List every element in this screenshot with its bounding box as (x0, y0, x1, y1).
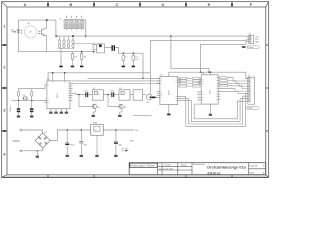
encoder wheel (24, 26, 37, 39)
junction AC gnd (37, 150, 38, 151)
LED D1 (17, 30, 22, 34)
junction gate input (93, 51, 95, 53)
connector X2 (248, 77, 255, 104)
S1 pin marks top (67, 16, 82, 18)
corner bevel bottom-right (266, 175, 269, 178)
gnd flag dark (242, 46, 246, 48)
wire bundle U3 (181, 99, 248, 122)
ground IC1 p2 (54, 112, 57, 114)
ground C11 (114, 155, 117, 157)
crystal resonator (23, 97, 27, 100)
svg-text:100n: 100n (110, 91, 114, 93)
IC1 counter (45, 81, 73, 112)
junction resistor tap (81, 51, 83, 53)
svg-text:4700u: 4700u (70, 144, 75, 146)
title block divider bezeichnung (191, 163, 193, 175)
wire gnd vertical (200, 44, 202, 72)
wire phototransistor emitter (45, 36, 47, 52)
ground T2 (118, 115, 121, 117)
ground bridge (36, 156, 39, 158)
net arrow +5V (131, 129, 133, 131)
wire y72 long (169, 72, 248, 78)
svg-text:IC8: IC8 (202, 73, 205, 75)
capacitor chain C7 (111, 92, 114, 97)
wire main bus (56, 35, 249, 38)
svg-text:100u: 100u (118, 144, 122, 146)
wire B1 out (103, 94, 111, 96)
junction clk (142, 78, 144, 80)
buzzer SP1 (146, 94, 152, 100)
wire gnd to X1 pin3 (201, 42, 249, 45)
ground R5 (71, 66, 74, 68)
title block header cell Aenderungen/Datum (130, 163, 157, 167)
title block divider datum col (161, 163, 163, 175)
transistor T2 (119, 104, 123, 108)
junction chain t1 (78, 94, 80, 96)
IC2 decoder (156, 76, 182, 107)
svg-text:M1: M1 (28, 23, 30, 25)
svg-text:12VAC: 12VAC (12, 140, 20, 143)
wire bridge gnd stub (36, 151, 38, 156)
wire network bottom row (58, 47, 75, 50)
junction ic3 top (210, 71, 212, 73)
wire network to gate top (73, 43, 95, 46)
wire bundle U1 (181, 94, 248, 127)
wire AC bottom (22, 148, 43, 151)
svg-text:E: E (208, 2, 211, 7)
wire ic3 top stub (209, 72, 211, 75)
no-connect marks IC3 (198, 91, 199, 100)
svg-text:IC5: IC5 (93, 88, 96, 90)
ground under network (59, 66, 62, 68)
junction bus R5 (72, 35, 74, 37)
label box counter (247, 46, 260, 49)
left ruler numbers (3, 24, 6, 157)
svg-text:Datum: Datum (165, 164, 172, 167)
junction row2 (208, 71, 210, 73)
svg-text:100Hz: 100Hz (10, 106, 12, 112)
wire bundle left stub (194, 103, 201, 105)
wire T1 base (79, 95, 93, 107)
connector X1 (249, 35, 254, 43)
wire bundle U4 (194, 101, 248, 119)
ground T1 (92, 115, 95, 117)
ground osc left (17, 116, 20, 118)
display driver B3 (133, 90, 142, 100)
net flag bottom (122, 148, 128, 151)
svg-text:IC2: IC2 (47, 79, 50, 81)
svg-text:Display: Display (247, 108, 252, 110)
oscillator wire top (19, 85, 47, 91)
capacitor osc right (30, 108, 33, 112)
svg-text:o01: o01 (11, 30, 14, 32)
resistor network R1-R4 (58, 36, 74, 48)
wire row2 horizontal (171, 68, 209, 72)
junction rail C9 (66, 129, 68, 131)
wire bus to row2 vertical (170, 36, 172, 68)
corner bevel top-right (266, 2, 269, 7)
svg-text:14.04.2002: 14.04.2002 (163, 168, 174, 170)
svg-text:Maßstab: Maßstab (250, 165, 259, 168)
svg-text:B1: B1 (45, 132, 47, 134)
wire ic2 top stub (168, 72, 170, 76)
junction osc left (18, 100, 20, 102)
junction S1 bus (85, 35, 87, 37)
resistor bank col2 (178, 77, 202, 87)
svg-text:D: D (162, 2, 165, 7)
ground IC1 p3 (60, 112, 63, 114)
bridge rectifier B1 (35, 133, 50, 148)
junction osc right (31, 100, 33, 102)
frame bottom emphasis (2, 176, 269, 178)
capacitor osc left (17, 108, 20, 112)
wire T2 base (108, 95, 120, 107)
svg-text:X1: X1 (249, 33, 251, 35)
corner bevel bottom-left (2, 175, 7, 178)
resonator R right (31, 91, 33, 96)
wire row3 b (71, 80, 160, 82)
svg-text:Bezeichnung: Bezeichnung (193, 164, 205, 166)
top ruler ticks (48, 3, 232, 7)
junction top rail (46, 19, 48, 21)
display driver B1 (92, 90, 103, 100)
border frame outer (2, 2, 269, 178)
ground osc right (30, 116, 33, 118)
ground R6 (80, 66, 83, 68)
title block right row line (249, 168, 266, 170)
wire clk vertical (149, 40, 151, 94)
svg-text:B: B (70, 2, 73, 7)
title block row line 2 (158, 169, 193, 171)
dark mark above title block (125, 150, 127, 151)
svg-text:Änderungen / Datum: Änderungen / Datum (130, 164, 155, 167)
wire network to ground (60, 48, 62, 65)
svg-text:gez.: gez. (159, 168, 163, 170)
wire row3 a (88, 77, 160, 79)
svg-text:IC6: IC6 (119, 88, 122, 90)
wire osc right col (31, 96, 33, 108)
resistor R5 (71, 52, 73, 65)
resistor bank col3 (220, 77, 227, 87)
ground IC1 p4 (65, 112, 68, 114)
IC pin name marks interior (47, 78, 217, 103)
ground VR1 (95, 155, 98, 157)
dip switch S1 (64, 20, 84, 29)
capacitor C9 electrolytic (66, 130, 68, 143)
svg-text:Zähler: Zähler (207, 170, 221, 175)
terminal 12VAC bottom (20, 150, 22, 152)
IC3 driver (198, 75, 221, 104)
svg-text:16v: 16v (135, 59, 138, 61)
capacitor C3 polarized (112, 45, 116, 51)
wire clk to X1 pin2 (150, 39, 249, 40)
junction C5 (133, 52, 135, 54)
ground C9 (66, 155, 69, 157)
svg-text:C: C (116, 2, 119, 7)
wire osc right gnd (31, 112, 33, 115)
capacitor C10 (80, 130, 82, 141)
title block outline (129, 163, 266, 175)
ground C5 (132, 66, 135, 68)
top ruler letters (24, 2, 253, 7)
display driver B2 (119, 90, 130, 100)
wire bridge to rail (50, 130, 90, 141)
gate U2 schmitt (93, 44, 104, 53)
ground C4 (122, 66, 125, 68)
border frame inner (7, 7, 266, 175)
junction C4 (123, 52, 125, 54)
wire B3 out (143, 94, 147, 96)
svg-text:100n: 100n (84, 91, 88, 93)
right ruler ticks (266, 45, 268, 131)
capacitor C5 (132, 53, 135, 65)
wire bundle U2 (181, 96, 248, 124)
junction emitter bus (56, 35, 58, 37)
svg-text:md-projekte@gmx.de: md-projekte@gmx.de (134, 114, 152, 117)
wire osc bottom (12, 99, 47, 101)
junction ic1 top (64, 72, 66, 74)
wire rail 5V (103, 129, 131, 131)
S1 pin stubs bottom (67, 29, 82, 31)
svg-text:Q1: Q1 (23, 95, 25, 97)
title block row line 1 (158, 165, 193, 167)
wire C7 to B2 (114, 94, 119, 96)
ground IC2 (167, 114, 170, 116)
ground IC3 (209, 114, 212, 116)
resonator R left (17, 91, 19, 96)
transistor T1 (92, 104, 96, 108)
voltage regulator VR1 (91, 124, 104, 135)
junction rail C10 (81, 129, 83, 131)
ground C10 (80, 155, 83, 157)
capacitor chain C6 (85, 92, 88, 97)
left ruler ticks (2, 45, 6, 131)
wire row3 c (73, 83, 160, 85)
svg-text:1006: 1006 (130, 140, 134, 142)
wire IC2 gnd (168, 107, 170, 113)
title block right divider (248, 163, 250, 175)
wire LED column (17, 20, 19, 52)
wire phototransistor collector (45, 20, 47, 28)
svg-text:S1: S1 (60, 19, 62, 21)
wire osc left col (18, 96, 20, 108)
svg-text:+5V: +5V (134, 130, 138, 132)
junction t2 (107, 94, 109, 96)
terminal 12VAC top (20, 129, 22, 131)
svg-text:IC7: IC7 (160, 75, 163, 77)
corner bevel top-left (2, 2, 7, 7)
wire T1 emitter (93, 109, 95, 115)
svg-text:Drehzahlanzeige 01a: Drehzahlanzeige 01a (207, 164, 246, 169)
wire IC3 gnd (209, 104, 211, 114)
wire regulator gnd (96, 135, 98, 155)
wire gate output (105, 47, 112, 49)
junction bus mid (170, 35, 172, 37)
svg-text:+: + (130, 55, 131, 57)
svg-text:LS1: LS1 (147, 102, 150, 104)
capacitor C11 electrolytic (115, 130, 117, 141)
wires col3 to X2 (221, 78, 248, 94)
title block divider gez col (157, 163, 159, 175)
wire ic1 tops (48, 73, 150, 81)
label box display (247, 107, 260, 110)
junction gnd vertical (200, 71, 202, 73)
wire osc left gnd (18, 112, 20, 115)
svg-text:100n: 100n (83, 144, 87, 146)
wire ic1 out to chain (73, 93, 87, 94)
wire LED left stub (12, 31, 17, 33)
wire B2 out (130, 94, 133, 96)
wire top rail opto (18, 20, 56, 36)
svg-text:A: A (24, 2, 27, 7)
resistor R6 (81, 52, 83, 65)
capacitor C4 (122, 53, 125, 65)
ground IC1 p1 (49, 112, 52, 114)
bottom ruler ticks (48, 175, 232, 177)
phototransistor Q1 (38, 28, 44, 35)
svg-text:Blatt:: Blatt: (250, 172, 255, 175)
svg-text:10k: 10k (84, 57, 87, 59)
wire LED to gate (18, 51, 93, 53)
svg-text:Name: Name (181, 165, 188, 167)
junction rail C11 (115, 129, 117, 131)
wire AC top (22, 130, 43, 133)
net flag dark IC2 (152, 97, 156, 99)
wire C3 to caps (115, 48, 143, 79)
resistor bank col1 (179, 77, 193, 87)
svg-text:1u: 1u (125, 57, 127, 59)
svg-text:10k: 10k (74, 57, 77, 59)
wire T2 emitter (120, 109, 122, 115)
wire C6 to B1 (88, 94, 92, 96)
svg-text:X2: X2 (248, 75, 250, 77)
wire S1 right bracket (84, 20, 86, 36)
title block divider name col (177, 163, 179, 175)
